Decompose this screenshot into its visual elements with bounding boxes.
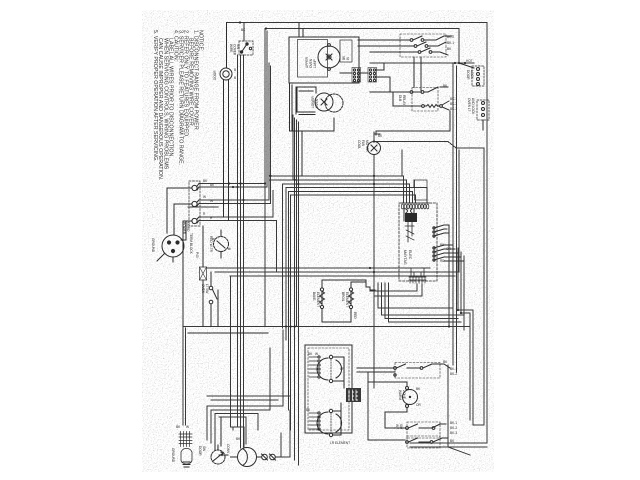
lamp L1 dashed circle: [214, 230, 229, 258]
wire header feed vertical: [401, 150, 403, 176]
wire fan motor top to right rail: [374, 134, 484, 425]
wire oven light elbow: [183, 327, 268, 334]
label F1: [195, 236, 213, 258]
switch row SW6 bottom right low: [368, 436, 448, 448]
resistor element E1 bake: [320, 280, 367, 322]
connector header J4 bottom pins: [409, 268, 426, 283]
label S2: [213, 68, 236, 80]
label S3: [201, 284, 209, 294]
wire terminal3 runs: [199, 191, 273, 218]
notice text block: [152, 30, 204, 180]
fuse F1: [200, 226, 207, 327]
terminal block TB1 dashed: [189, 181, 200, 226]
switch S3 oven light: [209, 272, 218, 327]
wire bus y175.9: [271, 176, 404, 203]
relay K2: [433, 245, 464, 261]
lamp L2 oven lamp: [181, 448, 192, 467]
wire J4 elbows: [370, 284, 417, 291]
wire bus y187.7: [286, 180, 427, 203]
wire SW3 bottom loop: [376, 111, 450, 135]
wire lower oven box: [290, 118, 334, 176]
box upper oven unit: [289, 37, 359, 83]
wire mid vertical bundle: [281, 184, 283, 328]
door switch S2 double circle: [220, 23, 232, 221]
wire bus y179.8: [269, 180, 407, 203]
fan motor M3: [368, 142, 381, 155]
element LR lower cluster: [309, 403, 342, 437]
wire terminal left links: [167, 188, 192, 327]
label U1 MAYTAG ELEC: [403, 250, 412, 265]
wire bottom cluster links: [219, 417, 228, 455]
connector CN1 dashed right top: [459, 63, 484, 86]
label SW5: [395, 421, 457, 435]
wire right mid bundle: [448, 236, 450, 327]
label S7: [198, 446, 206, 456]
resistor element E2 broil: [349, 282, 376, 322]
switch S7 door plunger: [211, 440, 225, 464]
connector block CB1: [346, 388, 361, 402]
label SW1 text: [229, 28, 246, 56]
switch SW1 top-left dashed box: [239, 23, 253, 56]
relay K1: [433, 225, 449, 237]
label M4: [226, 437, 241, 454]
capacitor C1: [262, 454, 268, 460]
label SW3: [398, 84, 457, 111]
switch row SW4 bottom right top row: [357, 363, 450, 379]
wire top rail 1: [227, 23, 488, 444]
box left oven elements LF RF: [305, 345, 352, 433]
wire terminal2 runs: [199, 63, 269, 200]
switch row SW5 bottom right mid: [385, 412, 446, 438]
wire top rail 2: [266, 29, 459, 64]
label P1: [151, 222, 190, 253]
connector comb J1: [352, 68, 361, 83]
wire y272: [215, 150, 459, 272]
connector header J3 top pins: [401, 203, 429, 209]
control board U1 dashed box: [399, 203, 437, 281]
wire trunk x237: [237, 55, 239, 427]
wire stubs rails to box: [299, 23, 303, 38]
MAIN-WIRES: [183, 23, 487, 466]
wire y207 stub: [188, 206, 218, 208]
wire bus y195: [291, 195, 416, 203]
label E1: [312, 292, 320, 307]
capacitor C2: [270, 454, 282, 460]
wire y326.5 long: [183, 326, 470, 328]
box clock input relay: [415, 180, 428, 200]
wire box exit verticals: [292, 115, 294, 180]
label M1: [305, 55, 350, 68]
label CN1: [466, 59, 474, 80]
label SW6: [450, 439, 455, 443]
wire bus y191.4: [288, 191, 412, 203]
wire bottom right section rails: [357, 372, 368, 440]
wire hot junction y63: [370, 62, 474, 64]
wire comb links: [340, 63, 390, 92]
switch cluster SW3 lower right: [370, 87, 449, 111]
wire bus y184: [282, 184, 409, 203]
wire fan motor drop: [373, 132, 375, 388]
label CN2: [467, 98, 475, 115]
motor M2 lower oven: [315, 93, 343, 112]
wire trunk x243: [243, 55, 245, 447]
wire bottom drops: [206, 406, 208, 440]
wire bottom bundle y406: [207, 330, 283, 406]
element LF upper cluster: [309, 355, 344, 388]
label M2: [311, 96, 319, 108]
junction dots: [228, 21, 466, 327]
wire elbow oven light switch: [183, 327, 186, 426]
label L1: [211, 238, 231, 250]
label SU3: [398, 387, 421, 407]
wire nest lower-mid bus: [378, 283, 452, 308]
motor M1 upper oven: [318, 44, 340, 71]
label K2 wires: [440, 243, 451, 263]
label L2: [171, 425, 189, 463]
wire diagonal bottom right: [448, 447, 470, 455]
wire trunk x240 from switch box to bottom: [240, 55, 242, 448]
label E2: [341, 292, 357, 319]
wire right jogs: [458, 310, 473, 425]
label LF: [308, 352, 344, 371]
connector comb J2: [368, 68, 377, 83]
wire terminal1 runs: [199, 29, 265, 327]
switch cluster SW2 upper right: [358, 34, 452, 57]
wire SW2 to SW3 drops: [414, 57, 421, 91]
label M3: [357, 134, 383, 153]
motor M4 convection: [231, 448, 262, 467]
transformer T1: [404, 209, 417, 242]
scan grain overlay: [142, 10, 494, 472]
wire y276: [230, 275, 455, 277]
box bottom unit edges: [295, 87, 297, 114]
wire conv motor link: [231, 276, 245, 447]
label terminal wires: [189, 179, 215, 255]
wire motor right: [281, 410, 290, 457]
wire bottom bundle y396: [207, 395, 290, 397]
wire lower horizontals y268: [207, 267, 430, 269]
label SW4: [443, 360, 457, 376]
power cord plug P1: [157, 235, 184, 262]
connector CN2 dashed right lower: [477, 100, 489, 130]
surface unit SU3 circle: [368, 382, 418, 412]
comb CN3 lamp connector: [179, 432, 192, 447]
label SW2: [447, 35, 454, 51]
label LR ELEMENT: [306, 408, 350, 445]
